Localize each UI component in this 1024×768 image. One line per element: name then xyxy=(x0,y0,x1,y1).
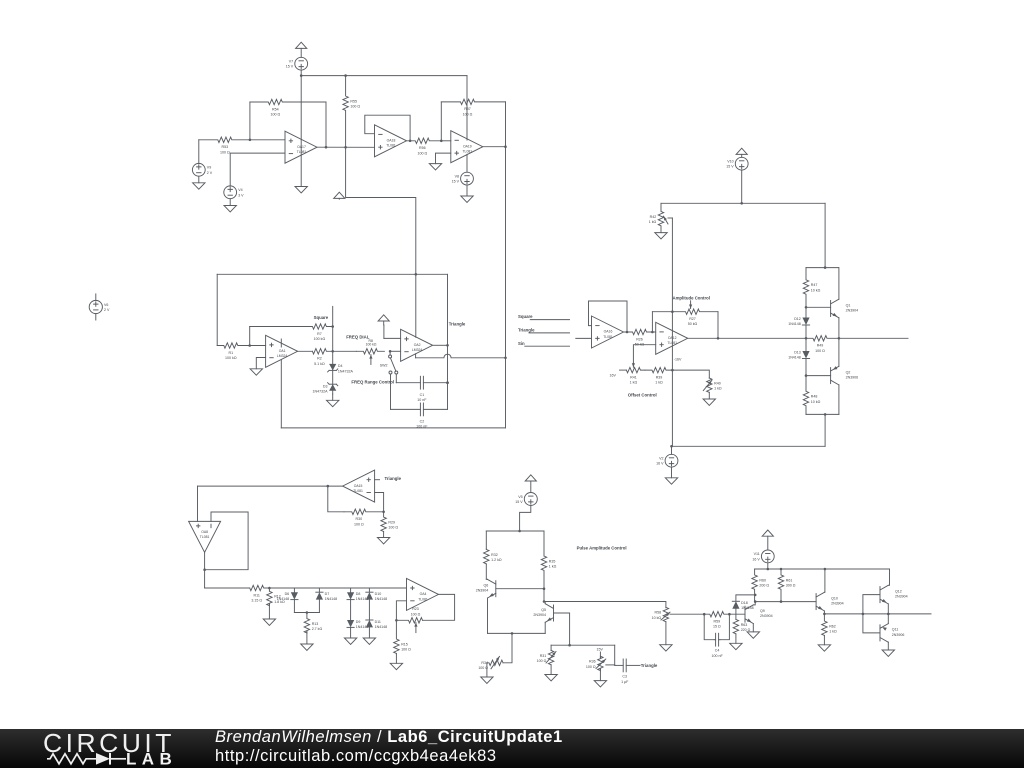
power flag xyxy=(296,42,307,57)
ground xyxy=(655,226,667,239)
svg-text:D11: D11 xyxy=(375,620,381,624)
svg-text:OA1: OA1 xyxy=(279,349,286,353)
wire C4 branch left xyxy=(704,614,714,640)
svg-text:Triangle: Triangle xyxy=(641,663,658,668)
wire D7 top lead xyxy=(318,588,320,592)
wire OA1 -in to ground xyxy=(256,358,265,369)
diode D12 xyxy=(788,317,809,326)
svg-text:R62: R62 xyxy=(829,624,836,628)
wire R32 to Q6 collector xyxy=(485,564,487,579)
wire Q5 emitter down xyxy=(544,622,546,633)
wire OA19 V- pin to V8 xyxy=(466,154,468,172)
ground xyxy=(660,645,672,651)
wire OA8 feedback loop xyxy=(205,512,249,570)
wire V7 to ground through OA17 supply pins xyxy=(300,70,302,186)
transistor Q5 xyxy=(533,604,553,623)
svg-text:1 kΩ: 1 kΩ xyxy=(655,381,663,385)
wire V11 to rail xyxy=(767,563,769,569)
wire diode network bus xyxy=(269,587,406,589)
wire OA15 -in down xyxy=(375,493,384,512)
svg-text:Q9: Q9 xyxy=(760,609,765,613)
power flag xyxy=(525,475,536,493)
wire diode string xyxy=(805,325,807,351)
svg-text:Q6: Q6 xyxy=(484,584,489,588)
svg-text:R2: R2 xyxy=(317,357,322,361)
transistor Q11 pnp xyxy=(880,624,904,643)
svg-text:OA15: OA15 xyxy=(354,484,363,488)
wire OA15 out to OA8 +in xyxy=(198,485,343,487)
resistor R56 xyxy=(410,138,441,155)
svg-text:SW2: SW2 xyxy=(380,363,388,367)
svg-text:D18: D18 xyxy=(741,601,748,605)
svg-text:3.15 Ω: 3.15 Ω xyxy=(251,599,262,603)
diode D18 xyxy=(732,601,753,610)
svg-text:TL081: TL081 xyxy=(200,535,210,539)
CircuitLab logo xyxy=(20,729,220,768)
svg-text:FREQ DIAL: FREQ DIAL xyxy=(346,335,370,340)
svg-text:10 kΩ: 10 kΩ xyxy=(652,616,662,620)
wire 15V stub to R36 xyxy=(599,652,601,658)
svg-text:300 Ω: 300 Ω xyxy=(786,584,796,588)
wire R36 wiper to C3 node xyxy=(606,664,615,666)
voltage source V2 xyxy=(656,454,678,467)
svg-text:Triangle: Triangle xyxy=(385,476,402,481)
capacitor C3 xyxy=(615,659,640,684)
wire OA17 out to OA18 +in xyxy=(317,146,375,148)
wire Q5 collector to R58 xyxy=(544,602,666,608)
wire SW2 left contact to C2 xyxy=(390,374,392,409)
svg-text:100 Ω: 100 Ω xyxy=(401,648,411,652)
wire square node bus xyxy=(332,306,334,394)
wire OA1 V+ pin stub xyxy=(280,339,282,347)
wire pulse output xyxy=(888,613,931,615)
potentiometer wiper R41 xyxy=(632,363,634,367)
svg-text:1 kΩ: 1 kΩ xyxy=(630,381,638,385)
wire D8 to D9 xyxy=(350,600,352,620)
resistor R36 xyxy=(586,656,603,670)
svg-text:1 µF: 1 µF xyxy=(621,680,629,684)
wire base bus to Q10 xyxy=(755,601,816,603)
wire R34 to ground xyxy=(486,663,488,677)
wire Q9 collector up xyxy=(753,602,755,605)
svg-text:2N3906: 2N3906 xyxy=(892,633,905,637)
wire R47 node to D12 xyxy=(805,307,807,317)
wire OA16 feedback loop xyxy=(589,301,628,332)
svg-text:OA16: OA16 xyxy=(604,330,613,334)
svg-text:1N4148: 1N4148 xyxy=(277,597,290,601)
svg-text:1 kΩ: 1 kΩ xyxy=(649,220,657,224)
wire R54 to OA17 output xyxy=(325,102,327,147)
wire to Q1 base xyxy=(806,306,831,308)
wire OA12 +in to R41 wiper xyxy=(633,345,655,363)
wire SW2 right contact to C1 xyxy=(395,374,397,383)
svg-text:1 kΩ: 1 kΩ xyxy=(829,630,837,634)
svg-text:D6: D6 xyxy=(285,592,290,596)
resistor R2 xyxy=(312,349,332,366)
svg-text:R26: R26 xyxy=(636,337,643,341)
wire to Q12 base xyxy=(863,595,880,614)
svg-text:R49: R49 xyxy=(817,344,824,348)
transistor Q9 xyxy=(745,605,773,624)
resistor R55 xyxy=(343,76,360,148)
potentiometer wiper R58 xyxy=(661,612,670,620)
ground xyxy=(263,604,275,626)
ground xyxy=(461,185,473,202)
op-amp OA15 xyxy=(343,470,375,502)
resistor R34 xyxy=(487,660,503,665)
ground xyxy=(295,187,307,193)
wire R56 to OA19 -in xyxy=(441,140,451,142)
op-amp OA17 xyxy=(285,131,317,163)
wire D8 top lead xyxy=(350,588,352,592)
svg-text:-16V: -16V xyxy=(674,358,682,362)
wire to OA2 V+ pin xyxy=(346,147,416,337)
wire pulse output rail xyxy=(755,568,890,570)
svg-text:1N4148: 1N4148 xyxy=(375,597,388,601)
wire D6 top lead xyxy=(293,588,295,592)
svg-text:V10: V10 xyxy=(727,160,733,164)
wire OA19 +in to ground xyxy=(436,153,451,164)
svg-text:2N3904: 2N3904 xyxy=(760,614,773,618)
svg-text:100 Ω: 100 Ω xyxy=(586,665,596,669)
wire down to R34 xyxy=(503,633,512,662)
wire lower bus xyxy=(294,612,319,614)
resistor R15 xyxy=(394,620,411,654)
wire to Q9 base xyxy=(729,613,745,615)
transistor Q2 xyxy=(831,366,859,385)
wire OA15 +in stub xyxy=(375,479,380,481)
wire Q5 base down xyxy=(554,613,570,645)
svg-text:OA4: OA4 xyxy=(420,592,427,596)
svg-text:15 V: 15 V xyxy=(452,180,460,184)
svg-text:R7: R7 xyxy=(317,332,322,336)
svg-text:Q1: Q1 xyxy=(846,303,851,307)
ground xyxy=(193,176,205,189)
resistor R13 xyxy=(304,613,322,634)
svg-text:5.1 kΩ: 5.1 kΩ xyxy=(314,362,325,366)
wire D10 top lead xyxy=(368,588,370,592)
svg-text:Q2: Q2 xyxy=(846,370,851,374)
ground xyxy=(703,392,715,405)
wire rail to R32 xyxy=(485,531,487,549)
svg-text:100 nF: 100 nF xyxy=(711,654,723,658)
svg-text:R61: R61 xyxy=(786,578,793,582)
wire Triangle net lead xyxy=(529,332,570,334)
wire OA2 V- pin stub xyxy=(415,354,417,358)
svg-text:50 kΩ: 50 kΩ xyxy=(688,322,698,326)
svg-text:TL081: TL081 xyxy=(353,489,363,493)
svg-text:R31: R31 xyxy=(540,654,547,658)
svg-text:V2: V2 xyxy=(659,457,663,461)
diode D11 xyxy=(366,620,387,629)
resistor R11 xyxy=(250,585,270,602)
svg-text:2N3904: 2N3904 xyxy=(895,595,908,599)
transistor Q6 xyxy=(476,579,496,598)
wire to R40 xyxy=(672,370,709,378)
svg-text:2N3904: 2N3904 xyxy=(476,589,489,593)
resistor R61 xyxy=(778,569,795,602)
resistor R35 xyxy=(541,556,556,589)
svg-text:R59: R59 xyxy=(714,620,721,624)
wire rail to R42 xyxy=(660,203,662,211)
svg-text:Q12: Q12 xyxy=(895,589,902,593)
svg-text:Q10: Q10 xyxy=(831,596,838,600)
wire down to OA8 +in xyxy=(197,486,199,521)
resistor R41 xyxy=(626,367,645,384)
svg-text:C4: C4 xyxy=(715,649,720,653)
resistor R62 xyxy=(822,614,837,636)
svg-text:R35: R35 xyxy=(549,559,556,563)
potentiometer wiper R34 xyxy=(491,656,500,668)
wire Square net lead xyxy=(530,319,569,321)
voltage source V5 xyxy=(515,493,537,506)
svg-text:2.7 kΩ: 2.7 kΩ xyxy=(312,627,323,631)
resistor R27 xyxy=(652,309,718,326)
svg-text:1N4732A: 1N4732A xyxy=(338,369,354,373)
wire top node xyxy=(806,267,839,269)
svg-text:R57: R57 xyxy=(464,107,471,111)
svg-text:1.2 kΩ: 1.2 kΩ xyxy=(491,558,502,562)
svg-text:3 V: 3 V xyxy=(238,193,244,197)
wire Q10 collector up xyxy=(823,569,826,592)
svg-text:2N3904: 2N3904 xyxy=(846,309,859,313)
wire Q6 emitter down xyxy=(487,598,489,633)
wire V6 bottom stub xyxy=(95,314,97,320)
wire OA12 output bus xyxy=(688,337,806,339)
capacitor C4 xyxy=(711,633,723,658)
resistor R1 xyxy=(217,343,250,360)
svg-text:D3: D3 xyxy=(323,385,328,389)
svg-text:C3: C3 xyxy=(622,675,627,679)
wire R35 node down xyxy=(543,589,545,602)
power flag xyxy=(378,315,389,325)
diode D10 xyxy=(366,592,387,601)
svg-text:R47: R47 xyxy=(811,283,818,287)
resistor R26 xyxy=(627,329,656,346)
resistor R32 xyxy=(484,549,502,564)
diode D8 xyxy=(347,592,368,601)
wire output to terminal xyxy=(839,337,908,339)
svg-text:R29: R29 xyxy=(388,521,395,525)
svg-text:D9: D9 xyxy=(356,620,361,624)
wire flag to OA2 +in xyxy=(384,337,401,339)
footer bar xyxy=(0,729,1024,768)
potentiometer wiper R40 xyxy=(703,380,712,390)
wire R30 left leg xyxy=(328,486,344,512)
svg-text:R56: R56 xyxy=(419,146,426,150)
svg-text:OA19: OA19 xyxy=(463,144,472,148)
svg-text:16 V: 16 V xyxy=(656,462,664,466)
op-amp OA8 xyxy=(189,521,221,552)
wire OA17 -in to V4 xyxy=(230,153,285,186)
svg-text:R58: R58 xyxy=(655,611,662,615)
ground xyxy=(594,669,606,687)
svg-text:R13: R13 xyxy=(312,622,319,626)
power flag xyxy=(736,148,747,157)
ground xyxy=(363,627,375,644)
wire R27 to output node xyxy=(717,312,719,339)
resistor R54 xyxy=(250,99,326,116)
svg-text:2N3904: 2N3904 xyxy=(831,602,844,606)
wire OA19 output xyxy=(483,146,505,148)
svg-text:V9: V9 xyxy=(207,166,211,170)
wire V10 to rail xyxy=(741,170,743,203)
resistor R8 xyxy=(356,349,384,354)
svg-text:1 kΩ: 1 kΩ xyxy=(549,565,557,569)
voltage source V4 xyxy=(224,186,244,199)
svg-text:D4: D4 xyxy=(338,364,343,368)
svg-text:OA18: OA18 xyxy=(387,139,396,143)
wire OA4 -in down xyxy=(396,601,406,621)
ground xyxy=(301,632,313,651)
power flag xyxy=(762,530,773,550)
svg-text:15 V: 15 V xyxy=(515,500,523,504)
ground xyxy=(429,164,441,170)
potentiometer wiper R23 xyxy=(415,623,417,633)
wire OA1 out to R2 xyxy=(297,350,313,352)
diode D4 xyxy=(328,364,354,374)
wire pulse block rail xyxy=(486,530,544,532)
wire emitters bus xyxy=(488,632,546,634)
wire Q11 emitter up xyxy=(887,614,889,624)
svg-text:100 Ω: 100 Ω xyxy=(463,112,473,116)
svg-text:100 Ω: 100 Ω xyxy=(417,151,427,155)
wire rail down to R1 xyxy=(216,274,218,345)
resistor R60 xyxy=(752,569,769,602)
potentiometer wiper R31 xyxy=(546,652,556,664)
wire C4 branch right xyxy=(720,614,729,640)
wire R57 to OA19 output xyxy=(505,102,507,147)
svg-text:100 kΩ: 100 kΩ xyxy=(225,356,237,360)
wire D6 to lower bus xyxy=(293,600,295,613)
svg-text:Triangle: Triangle xyxy=(518,328,535,333)
resistor R59 xyxy=(704,612,729,629)
transistor Q10 xyxy=(816,592,844,611)
wire to V9 xyxy=(198,140,200,164)
wire rail to R35 xyxy=(543,531,545,556)
ground xyxy=(250,369,262,375)
svg-text:R39: R39 xyxy=(656,375,663,379)
svg-text:R23: R23 xyxy=(412,607,419,611)
svg-text:R41: R41 xyxy=(630,375,637,379)
wire stub to OA16 +in xyxy=(576,337,592,339)
wire xyxy=(486,578,487,580)
wire rail to OA19 V+ pin xyxy=(466,76,468,140)
wire down to -16V rail xyxy=(824,414,826,446)
op-amp OA12 xyxy=(656,322,688,354)
wire -in riser to R27 xyxy=(651,312,653,332)
wire 16V stub to R41 xyxy=(620,369,627,371)
op-amp OA4 xyxy=(407,578,439,610)
svg-text:C1: C1 xyxy=(420,393,425,397)
wire Q11 collector down xyxy=(887,642,889,650)
svg-text:R60: R60 xyxy=(759,578,766,582)
resistor R58 xyxy=(652,607,669,621)
svg-text:100 Ω: 100 Ω xyxy=(388,526,398,530)
wire to Q11 base xyxy=(863,614,880,633)
wire OA2 V- to bottom rail with hop xyxy=(416,354,506,358)
resistor R29 xyxy=(381,512,398,532)
svg-text:1N4148: 1N4148 xyxy=(325,597,338,601)
svg-text:1N4148: 1N4148 xyxy=(375,625,388,629)
svg-text:R30: R30 xyxy=(356,517,363,521)
svg-text:16V: 16V xyxy=(609,373,616,377)
svg-text:2 V: 2 V xyxy=(104,308,110,312)
wire flag stem xyxy=(383,325,385,338)
wire R58 to ground xyxy=(665,622,667,645)
svg-text:R40: R40 xyxy=(714,381,721,385)
voltage source V6 xyxy=(89,300,110,313)
wire R2 to R8 xyxy=(333,350,357,352)
wire R53 to OA17 +in xyxy=(250,139,285,141)
wire D18 to R63 xyxy=(735,609,737,620)
svg-text:2N3904: 2N3904 xyxy=(533,613,546,617)
potentiometer wiper R8 xyxy=(370,355,372,365)
wire R42 wiper out xyxy=(668,217,672,219)
ground xyxy=(747,632,759,638)
wire Q12 emitter down xyxy=(887,604,889,614)
svg-text:1 kΩ: 1 kΩ xyxy=(714,387,722,391)
svg-text:10 kΩ: 10 kΩ xyxy=(811,288,821,292)
potentiometer wiper R36 xyxy=(596,659,606,669)
svg-text:V7: V7 xyxy=(289,60,293,64)
svg-text:V11: V11 xyxy=(754,552,760,556)
svg-text:100 Ω: 100 Ω xyxy=(411,612,421,616)
wire +16V rail xyxy=(661,202,825,204)
svg-text:R27: R27 xyxy=(689,317,696,321)
wire Q6 base to R35 node xyxy=(496,588,544,590)
wire -16V bottom rail xyxy=(672,445,825,447)
svg-text:LM324: LM324 xyxy=(277,354,287,358)
diode D7 xyxy=(316,592,337,601)
wire to R31 xyxy=(550,645,552,650)
diode D3 xyxy=(313,383,338,394)
svg-text:OA8: OA8 xyxy=(201,530,208,534)
svg-text:TL081: TL081 xyxy=(603,335,613,339)
wire R58 wiper to R59 xyxy=(670,613,704,615)
svg-text:D12: D12 xyxy=(794,317,801,321)
svg-text:D13: D13 xyxy=(794,351,801,355)
svg-text:OA2: OA2 xyxy=(414,343,421,347)
svg-text:15V: 15V xyxy=(596,648,603,652)
svg-text:C2: C2 xyxy=(420,420,425,424)
wire to OA2 -in xyxy=(390,350,401,352)
wire to R11 xyxy=(205,587,250,589)
resistor R7 xyxy=(250,324,333,341)
resistor R23 xyxy=(396,618,422,623)
svg-text:R1: R1 xyxy=(228,351,233,355)
svg-text:100 kΩ: 100 kΩ xyxy=(314,337,326,341)
svg-text:100 Ω: 100 Ω xyxy=(537,659,547,663)
svg-text:100 Ω: 100 Ω xyxy=(350,105,360,109)
switch SW2 xyxy=(380,355,398,374)
svg-text:V8: V8 xyxy=(455,174,459,178)
transistor Q12 xyxy=(880,585,908,604)
svg-text:R53: R53 xyxy=(222,145,229,149)
svg-text:10 nF: 10 nF xyxy=(417,398,427,402)
svg-text:100 Ω: 100 Ω xyxy=(270,113,280,117)
wire base network bus xyxy=(551,644,615,646)
diode D9 xyxy=(347,620,368,629)
svg-text:100 Ω: 100 Ω xyxy=(220,150,230,154)
svg-text:15 V: 15 V xyxy=(726,165,734,169)
wire OA18 feedback loop xyxy=(365,115,410,141)
wire bottom rail xyxy=(281,427,505,429)
wire triangle feedback rail xyxy=(217,273,447,275)
wire OA4 feedback xyxy=(423,594,455,620)
svg-text:1N4732A: 1N4732A xyxy=(313,390,329,394)
svg-text:Q11: Q11 xyxy=(892,628,899,632)
